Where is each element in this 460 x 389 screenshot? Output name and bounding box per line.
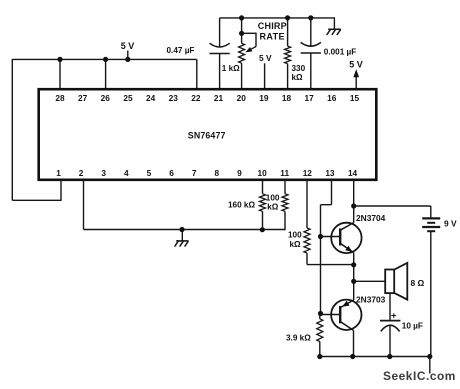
transistor Q1 2N3704 — [321, 223, 362, 253]
node H — [179, 227, 184, 232]
svg-text:RATE: RATE — [260, 32, 285, 42]
node K — [318, 311, 323, 316]
svg-text:21: 21 — [214, 93, 224, 103]
svg-text:2: 2 — [79, 168, 84, 178]
wire — [127, 51, 129, 60]
wire — [12, 58, 197, 60]
wire — [83, 180, 85, 230]
node D — [239, 15, 244, 20]
value label R4 — [266, 193, 280, 211]
part label Q2 — [356, 295, 386, 305]
wire — [354, 280, 385, 282]
value label LS1 — [411, 278, 425, 288]
svg-text:CHIRP: CHIRP — [258, 21, 287, 31]
svg-text:5: 5 — [147, 168, 152, 178]
svg-text:5 V: 5 V — [259, 53, 272, 63]
resistor R6 3.9k — [317, 319, 323, 342]
node I — [260, 227, 265, 232]
ground — [327, 29, 341, 35]
svg-text:kΩ: kΩ — [267, 202, 279, 211]
svg-text:25: 25 — [123, 93, 133, 103]
node A — [57, 57, 62, 62]
wire — [219, 18, 221, 47]
svg-text:11: 11 — [280, 168, 289, 178]
svg-text:5 V: 5 V — [121, 41, 135, 51]
resistor R3 160k — [260, 194, 266, 212]
svg-text:0.47 µF: 0.47 µF — [167, 46, 195, 55]
svg-text:24: 24 — [146, 93, 156, 103]
power +5V pin19 — [259, 53, 272, 63]
wire — [331, 180, 333, 205]
wire — [306, 253, 308, 265]
speaker LS1 8ohm — [385, 263, 407, 300]
svg-text:9: 9 — [237, 168, 242, 178]
capacitor C1 0.47uF — [210, 43, 230, 89]
wire — [262, 180, 264, 194]
svg-text:5 V: 5 V — [349, 60, 363, 70]
value label R2 — [292, 64, 306, 82]
svg-text:26: 26 — [101, 93, 111, 103]
svg-text:23: 23 — [169, 93, 179, 103]
svg-text:19: 19 — [259, 93, 269, 103]
node R — [427, 354, 432, 359]
svg-text:8 Ω: 8 Ω — [411, 278, 425, 288]
svg-text:330: 330 — [292, 64, 306, 73]
ground — [175, 230, 189, 247]
node F — [285, 15, 290, 20]
value label C1 — [167, 46, 195, 55]
wire — [333, 18, 335, 29]
wire — [430, 206, 432, 218]
wire — [264, 63, 266, 89]
wire — [284, 180, 286, 194]
wire — [353, 253, 355, 300]
wire — [319, 342, 321, 357]
wire — [241, 63, 243, 89]
svg-text:12: 12 — [303, 168, 313, 178]
wire — [307, 264, 354, 266]
svg-text:20: 20 — [237, 93, 247, 103]
resistor R4 100k — [282, 194, 288, 212]
wire — [310, 18, 312, 47]
svg-text:14: 14 — [348, 168, 358, 178]
wire — [84, 229, 286, 231]
wire — [353, 330, 355, 356]
node G — [308, 15, 313, 20]
node B — [103, 57, 108, 62]
wire — [284, 211, 286, 230]
wire — [430, 231, 432, 356]
svg-text:15: 15 — [350, 93, 360, 103]
node Q — [387, 354, 392, 359]
svg-text:28: 28 — [55, 93, 65, 103]
watermark — [383, 369, 456, 383]
svg-text:22: 22 — [191, 93, 201, 103]
svg-text:6: 6 — [169, 168, 174, 178]
node C — [125, 57, 130, 62]
svg-text:1: 1 — [56, 168, 61, 178]
svg-text:100: 100 — [266, 193, 280, 202]
resistor R5 100k — [304, 228, 310, 253]
battery BT1 9V — [422, 218, 440, 231]
wire — [353, 180, 355, 206]
svg-text:kΩ: kΩ — [290, 240, 302, 249]
capacitor C2 0.001uF — [301, 42, 321, 89]
svg-text:SeekIC.com: SeekIC.com — [383, 369, 456, 383]
svg-text:16: 16 — [327, 93, 337, 103]
wire — [220, 17, 335, 19]
svg-text:3: 3 — [101, 168, 106, 178]
transistor Q2 2N3703 — [321, 300, 362, 331]
node L — [351, 203, 356, 208]
wire — [353, 206, 355, 223]
svg-text:3.9 kΩ: 3.9 kΩ — [286, 334, 311, 343]
svg-text:SN76477: SN76477 — [188, 130, 226, 140]
svg-text:160 kΩ: 160 kΩ — [228, 201, 255, 210]
wire — [12, 199, 61, 201]
wire — [321, 204, 332, 206]
node O — [317, 354, 322, 359]
wire — [60, 180, 62, 201]
wire — [319, 314, 321, 319]
capacitor C3 10uF — [380, 311, 400, 357]
resistor R2 330k — [285, 46, 291, 64]
svg-text:4: 4 — [124, 168, 129, 178]
svg-text:2N3704: 2N3704 — [356, 213, 386, 223]
wire — [320, 205, 322, 314]
svg-text:7: 7 — [192, 168, 197, 178]
value label C2 — [324, 48, 356, 57]
svg-text:10: 10 — [257, 168, 267, 178]
wire — [287, 64, 289, 89]
svg-text:17: 17 — [305, 93, 315, 103]
power +5V — [121, 41, 135, 51]
svg-text:0.001 µF: 0.001 µF — [324, 48, 356, 57]
wire — [429, 357, 431, 374]
svg-text:100: 100 — [288, 231, 302, 240]
wire — [196, 59, 198, 89]
svg-text:10 µF: 10 µF — [402, 321, 423, 330]
resistor R1 1k — [239, 43, 245, 63]
wire — [354, 205, 431, 207]
node P — [350, 354, 355, 359]
wire — [320, 356, 431, 358]
wire — [11, 59, 13, 200]
svg-text:27: 27 — [78, 93, 88, 103]
svg-text:2N3703: 2N3703 — [356, 295, 386, 305]
value label R3 — [228, 201, 255, 210]
op-amp U1 SN76477 — [39, 89, 377, 180]
wire — [389, 293, 391, 320]
wire — [287, 18, 289, 46]
value label R5 — [288, 231, 302, 249]
node M — [351, 262, 356, 267]
wire — [262, 211, 264, 229]
svg-text:18: 18 — [282, 93, 292, 103]
part label Q1 — [356, 213, 386, 223]
value label BT1 — [444, 219, 457, 229]
svg-text:kΩ: kΩ — [292, 73, 304, 82]
value label R6 — [286, 334, 311, 343]
node E — [239, 31, 244, 36]
svg-text:1 kΩ: 1 kΩ — [222, 64, 240, 73]
value label C3 — [402, 321, 423, 330]
wire — [306, 180, 308, 228]
wire — [105, 59, 107, 89]
wire — [59, 59, 61, 89]
svg-text:9 V: 9 V — [444, 219, 457, 229]
svg-text:13: 13 — [325, 168, 335, 178]
svg-text:8: 8 — [215, 168, 220, 178]
power +5V pin15 — [349, 60, 363, 89]
node N — [351, 279, 356, 284]
pin numbers top row — [55, 93, 359, 103]
node J — [318, 234, 323, 239]
wire — [241, 18, 243, 43]
label CHIRP RATE — [258, 21, 287, 42]
potentiometer wiper — [242, 33, 256, 53]
pin numbers bottom row — [56, 168, 357, 178]
value label R1 — [222, 64, 240, 73]
